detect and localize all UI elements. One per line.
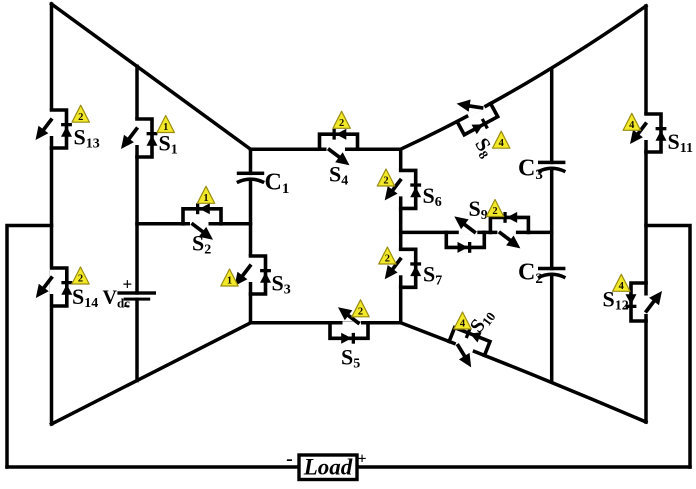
svg-text:2: 2 bbox=[383, 176, 388, 187]
switch S9 right bbox=[490, 212, 528, 249]
triangle marker S5 bbox=[352, 300, 369, 318]
svg-text:4: 4 bbox=[619, 281, 625, 292]
switch S14 bbox=[36, 268, 73, 306]
wire S9 row bbox=[401, 231, 552, 235]
wire bottom load line bbox=[7, 465, 690, 469]
svg-text:1: 1 bbox=[203, 193, 208, 204]
capacitor C1 bbox=[237, 172, 264, 183]
svg-text:+: + bbox=[123, 275, 133, 294]
svg-text:2: 2 bbox=[358, 306, 363, 317]
svg-text:+: + bbox=[357, 451, 366, 468]
triangle marker S13 bbox=[72, 105, 89, 123]
switch S10 bbox=[443, 322, 492, 370]
wire capacitor column bbox=[550, 69, 554, 381]
svg-text:Load: Load bbox=[303, 455, 353, 480]
svg-text:2: 2 bbox=[492, 206, 497, 217]
wire central rectangle right side bbox=[399, 149, 403, 323]
svg-text:4: 4 bbox=[499, 138, 505, 149]
battery Vdc bbox=[117, 275, 156, 317]
wire S2 row bbox=[137, 222, 251, 226]
triangle marker S6 bbox=[377, 169, 394, 187]
switch S6 bbox=[385, 170, 422, 208]
switch S12 bbox=[626, 283, 663, 321]
load box bbox=[286, 448, 366, 480]
wire outer right branch bbox=[646, 226, 690, 468]
wire outer left branch bbox=[7, 226, 52, 468]
switch S13 bbox=[36, 110, 73, 148]
triangle marker S12 bbox=[613, 274, 630, 292]
wire right rail bbox=[644, 6, 648, 422]
svg-text:2: 2 bbox=[78, 274, 83, 285]
wire central rectangle top side bbox=[251, 147, 401, 151]
wire top-left diagonal bbox=[52, 4, 251, 149]
triangle marker S9 bbox=[486, 200, 503, 218]
svg-text:1: 1 bbox=[227, 276, 232, 287]
svg-text:4: 4 bbox=[629, 120, 635, 131]
triangle marker S11 bbox=[623, 113, 640, 131]
svg-text:2: 2 bbox=[339, 118, 344, 129]
capacitor C2 bbox=[538, 267, 565, 278]
switch S8 bbox=[450, 89, 501, 139]
wire central rectangle bottom side bbox=[251, 321, 401, 325]
triangle marker S3 bbox=[221, 269, 238, 287]
wire bottom-left diagonal bbox=[52, 323, 251, 424]
switch S1 bbox=[121, 119, 158, 157]
svg-text:1: 1 bbox=[163, 122, 168, 133]
wire S1 battery rail bbox=[135, 66, 139, 380]
svg-text:2: 2 bbox=[78, 112, 83, 123]
svg-text:2: 2 bbox=[385, 254, 390, 265]
triangle marker S1 bbox=[157, 116, 174, 134]
triangle marker S10 bbox=[454, 312, 471, 330]
svg-text:-: - bbox=[286, 448, 293, 470]
wire left rail bbox=[50, 4, 54, 424]
wire top-right curve bbox=[401, 6, 646, 149]
capacitor C3 bbox=[538, 161, 565, 172]
switch S5 bbox=[330, 307, 368, 344]
switch S3 bbox=[235, 256, 272, 294]
switch S4 bbox=[320, 129, 358, 166]
triangle marker S7 bbox=[379, 247, 396, 265]
triangle marker S2 bbox=[197, 186, 214, 204]
switch S11 bbox=[630, 114, 667, 152]
triangle marker S14 bbox=[72, 267, 89, 285]
triangle marker S8 bbox=[493, 131, 510, 149]
wire central rectangle left side bbox=[249, 149, 253, 323]
switch S2 bbox=[183, 203, 221, 240]
svg-text:4: 4 bbox=[460, 319, 466, 330]
triangle marker S4 bbox=[333, 111, 350, 129]
wire bottom-right curve bbox=[401, 323, 646, 422]
switch S9 left bbox=[446, 216, 484, 253]
switch S7 bbox=[385, 249, 422, 287]
